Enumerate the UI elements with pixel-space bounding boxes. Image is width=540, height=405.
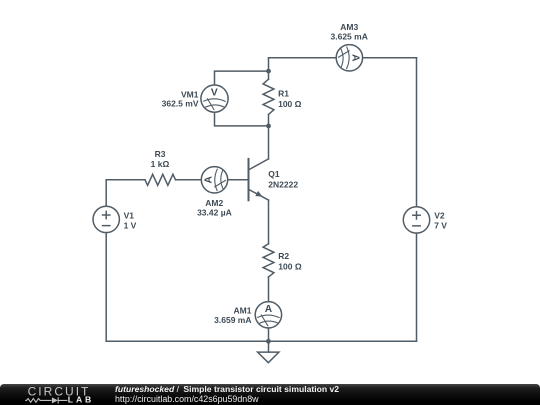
svg-text:362.5 mV: 362.5 mV (162, 99, 199, 109)
svg-text:3.625 mA: 3.625 mA (331, 32, 368, 42)
svg-text:AM2: AM2 (205, 198, 223, 208)
svg-text:33.42 µA: 33.42 µA (197, 208, 232, 218)
svg-text:7 V: 7 V (434, 221, 447, 231)
svg-text:A: A (265, 304, 273, 315)
svg-text:V2: V2 (434, 210, 445, 220)
svg-text:AM1: AM1 (234, 306, 252, 316)
svg-text:R2: R2 (278, 251, 289, 261)
svg-text:R3: R3 (155, 149, 166, 159)
svg-text:LAB: LAB (68, 394, 94, 404)
svg-text:Q1: Q1 (268, 169, 280, 179)
svg-text:3.659 mA: 3.659 mA (214, 315, 251, 325)
svg-text:1 kΩ: 1 kΩ (151, 159, 170, 169)
svg-text:V: V (211, 88, 218, 99)
svg-text:A: A (204, 175, 215, 183)
svg-text:1 V: 1 V (124, 221, 137, 231)
svg-text:100 Ω: 100 Ω (278, 99, 302, 109)
svg-text:AM3: AM3 (340, 22, 358, 32)
svg-text:2N2222: 2N2222 (268, 179, 298, 189)
svg-text:A: A (349, 54, 360, 62)
svg-text:V1: V1 (124, 210, 135, 220)
svg-text:100 Ω: 100 Ω (278, 261, 302, 271)
svg-text:R1: R1 (278, 89, 289, 99)
